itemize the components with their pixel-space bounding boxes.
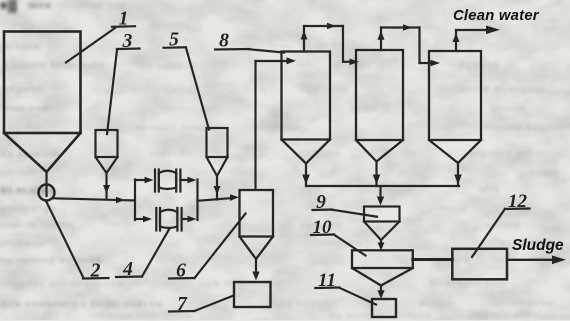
text Clean water bbox=[453, 8, 540, 24]
svg-text:11: 11 bbox=[318, 270, 336, 291]
wire collector to hopper 9 bbox=[377, 187, 384, 206]
label 4 bbox=[116, 229, 170, 281]
svg-text:12: 12 bbox=[508, 191, 528, 212]
hopper 6 bbox=[240, 190, 274, 259]
label 7 bbox=[169, 294, 234, 315]
wire clarifier 10 to box 12 bbox=[413, 258, 453, 261]
wire out of mill bottom bbox=[182, 216, 197, 222]
settling tank B bbox=[356, 50, 403, 162]
label 1 bbox=[66, 9, 135, 63]
wire branch into tank A with arrow bbox=[256, 57, 297, 64]
tank C outlet arrow bbox=[454, 163, 462, 186]
wire feed down into hopper 6 bbox=[254, 61, 256, 189]
label 8 bbox=[215, 31, 284, 53]
wire mills to hopper 6 bbox=[198, 194, 240, 201]
label 9 bbox=[313, 192, 378, 217]
wire into mill top bbox=[135, 177, 154, 183]
wire out of mill top bbox=[180, 177, 196, 183]
tank B outlet arrow bbox=[373, 162, 381, 187]
mills manifold right bracket bbox=[196, 180, 198, 221]
label 11 bbox=[315, 270, 376, 305]
label 2 bbox=[46, 201, 109, 282]
svg-text:7: 7 bbox=[177, 294, 188, 315]
svg-text:4: 4 bbox=[122, 259, 133, 280]
bleed-through noise rows bbox=[0, 0, 18, 13]
tank A riser pipe bbox=[301, 23, 360, 65]
settling tank C bbox=[429, 51, 481, 163]
wire pump to mills bbox=[54, 197, 135, 203]
svg-text:3: 3 bbox=[122, 31, 133, 52]
svg-text:9: 9 bbox=[316, 192, 326, 213]
clarifier 10 bbox=[352, 250, 413, 298]
pump 2 (circle) bbox=[39, 185, 55, 201]
label 3 bbox=[107, 31, 140, 134]
sludge outlet arrow bbox=[507, 256, 566, 265]
mill 4 top bbox=[155, 170, 180, 192]
hopper 9 bbox=[364, 207, 400, 251]
tank 1 bbox=[4, 32, 81, 197]
arrow hopper 6 to box 7 bbox=[252, 259, 259, 281]
svg-text:Clean water: Clean water bbox=[453, 8, 540, 24]
box 12 bbox=[452, 249, 507, 279]
label 12 bbox=[472, 191, 530, 257]
tank B riser pipe bbox=[378, 24, 441, 66]
svg-text:10: 10 bbox=[313, 217, 333, 238]
label 5 bbox=[164, 30, 210, 130]
hopper 3 bbox=[96, 130, 118, 199]
text Sludge bbox=[512, 237, 564, 254]
tank C riser pipe (clean water outlet) bbox=[453, 26, 501, 52]
mills manifold left bracket bbox=[134, 180, 136, 221]
mill 4 bottom bbox=[156, 208, 181, 231]
label 10 bbox=[311, 217, 366, 256]
svg-text:2: 2 bbox=[90, 261, 101, 282]
box 7 bbox=[234, 282, 271, 307]
svg-text:Sludge: Sludge bbox=[512, 237, 564, 254]
hopper 5 bbox=[207, 128, 228, 200]
svg-text:5: 5 bbox=[169, 30, 179, 51]
settling tank A bbox=[282, 52, 331, 164]
label 6 bbox=[169, 214, 246, 282]
box 11 bbox=[372, 299, 396, 317]
svg-text:8: 8 bbox=[219, 31, 229, 52]
collector wire under tanks bbox=[306, 185, 459, 187]
wire into mill bottom bbox=[135, 216, 152, 222]
svg-text:6: 6 bbox=[176, 261, 186, 282]
svg-text:1: 1 bbox=[119, 9, 129, 30]
tank A outlet arrow bbox=[302, 164, 310, 187]
